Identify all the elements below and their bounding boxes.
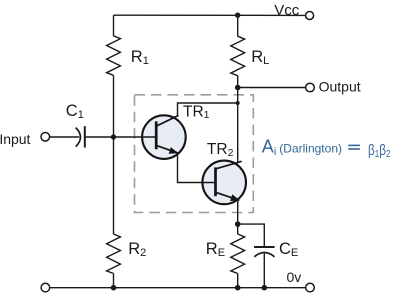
junction dot input node xyxy=(111,134,116,139)
wire TR1 collector to rail xyxy=(178,103,238,116)
svg-text:(Darlington): (Darlington) xyxy=(279,142,342,156)
junction dot RE / rail xyxy=(235,285,241,291)
terminal bottom-right xyxy=(306,283,315,292)
formula equals sign xyxy=(348,145,360,150)
wire TR2 emitter down xyxy=(237,200,239,224)
junction dot R2 / rail xyxy=(111,285,117,291)
terminal Output xyxy=(306,83,315,92)
capacitor C1 xyxy=(76,126,85,147)
svg-text:0v: 0v xyxy=(287,269,302,285)
resistor RL xyxy=(231,15,245,87)
resistor RE xyxy=(231,224,245,288)
wire top Vcc rail xyxy=(114,14,306,16)
wire collector rail xyxy=(237,88,239,163)
svg-text:Output: Output xyxy=(319,78,361,94)
terminal Input xyxy=(41,133,50,142)
junction dot CE / rail xyxy=(262,285,268,291)
terminal bottom-left xyxy=(41,283,50,292)
resistor R2 xyxy=(107,137,121,288)
junction dot top rail / RL xyxy=(235,13,240,18)
transistor TR2 xyxy=(202,161,246,205)
wire TR1 emitter to TR2 base xyxy=(178,153,204,183)
terminal Vcc xyxy=(306,12,314,20)
svg-text:Input: Input xyxy=(0,131,31,147)
svg-text:Vcc: Vcc xyxy=(274,2,300,19)
junction dot output xyxy=(235,85,241,91)
dashed box (Darlington pair outline) xyxy=(135,95,254,213)
wire bottom 0v rail xyxy=(50,287,305,289)
wire emitter node to CE xyxy=(238,224,265,246)
junction dot collector tie xyxy=(236,101,240,105)
wire C1 to TR1 base xyxy=(85,136,143,138)
wire CE to ground rail xyxy=(263,254,265,289)
transistor TR1 xyxy=(142,115,186,159)
resistor R1 xyxy=(107,15,121,137)
wire output xyxy=(238,87,305,89)
junction dot emitter node xyxy=(235,221,241,227)
capacitor CE xyxy=(254,247,275,257)
wire input to C1 xyxy=(49,136,79,138)
